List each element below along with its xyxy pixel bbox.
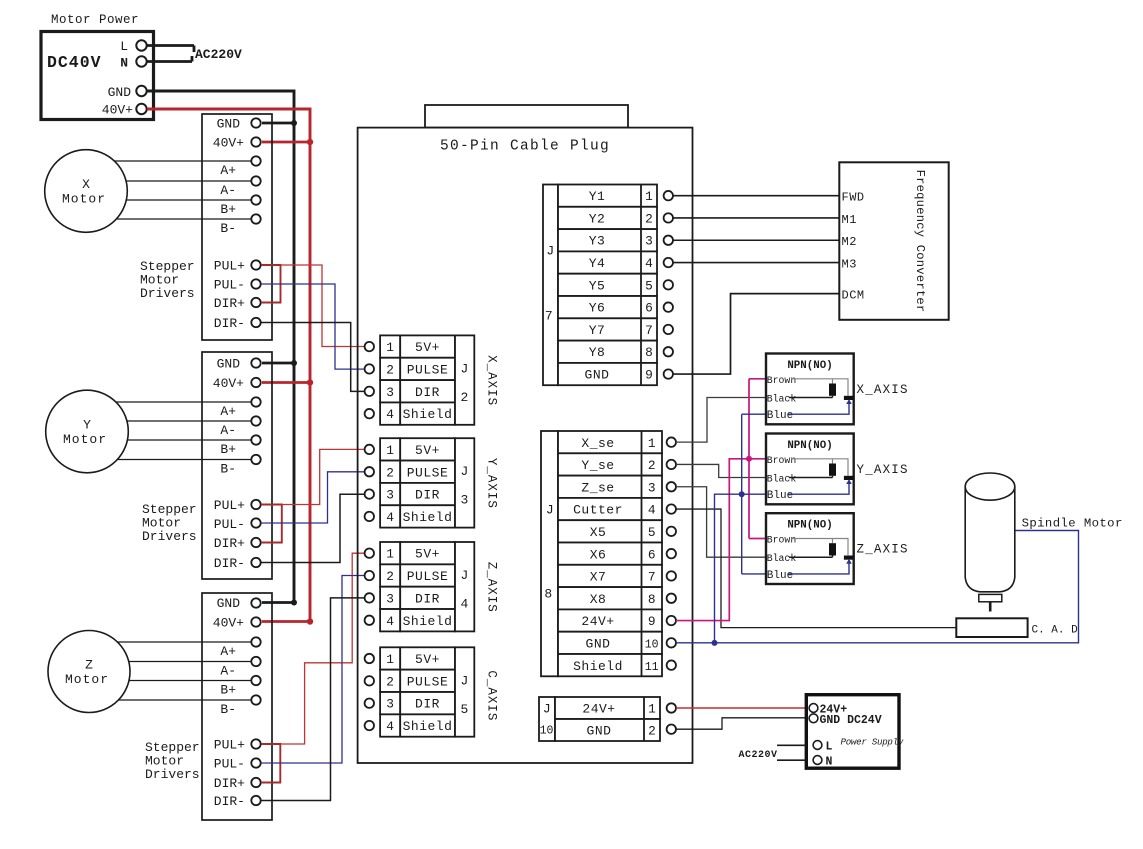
- svg-text:Shield: Shield: [403, 407, 453, 422]
- svg-text:C. A. D: C. A. D: [1032, 625, 1079, 637]
- svg-text:Drivers: Drivers: [142, 529, 197, 544]
- svg-text:Y7: Y7: [589, 323, 606, 338]
- svg-text:DC40V: DC40V: [47, 53, 102, 72]
- pin Z GND: [251, 598, 260, 607]
- pin C_AXIS 3: [365, 699, 374, 708]
- pin X_AXIS 3: [365, 387, 374, 396]
- svg-text:Shield: Shield: [403, 510, 453, 525]
- svg-text:L: L: [826, 741, 833, 754]
- svg-text:6: 6: [648, 547, 656, 562]
- pin Z_AXIS 1: [365, 549, 374, 558]
- wire Y motor B-: [117, 459, 251, 461]
- svg-text:L: L: [120, 39, 128, 54]
- svg-text:DIR: DIR: [415, 488, 440, 503]
- svg-text:PUL+: PUL+: [214, 738, 245, 753]
- wire Z PULSE to Z_AXIS pin2: [261, 576, 365, 764]
- pin J8-11: [667, 660, 676, 669]
- pin X A+: [251, 156, 260, 165]
- svg-text:X5: X5: [590, 525, 607, 540]
- wire X motor A+: [114, 160, 251, 162]
- svg-text:Z: Z: [85, 658, 93, 673]
- svg-text:GND: GND: [217, 596, 241, 611]
- svg-text:4: 4: [386, 407, 394, 422]
- svg-text:10: 10: [645, 639, 659, 652]
- pin X 40V+: [251, 137, 260, 146]
- stepper motor driver Z: [202, 593, 272, 820]
- pin X B+: [251, 195, 260, 204]
- svg-text:PULSE: PULSE: [407, 569, 449, 584]
- wire Y motor A+: [116, 401, 252, 403]
- svg-text:B+: B+: [220, 442, 236, 457]
- svg-text:4: 4: [648, 503, 656, 518]
- wire Y PUL+/DIR+ link: [261, 505, 282, 543]
- svg-text:A-: A-: [220, 183, 236, 198]
- svg-text:Y_AXIS: Y_AXIS: [857, 463, 909, 477]
- svg-text:Y_se: Y_se: [581, 458, 614, 473]
- svg-text:J: J: [546, 503, 554, 518]
- svg-text:5: 5: [648, 525, 656, 540]
- pin Z A+: [251, 637, 260, 646]
- svg-text:Y5: Y5: [589, 278, 606, 293]
- svg-text:3: 3: [386, 591, 394, 606]
- svg-text:PUL-: PUL-: [214, 517, 245, 532]
- wire Z motor A+: [118, 641, 252, 643]
- svg-text:1: 1: [645, 189, 653, 204]
- svg-text:5V+: 5V+: [415, 340, 440, 355]
- svg-text:M2: M2: [842, 235, 857, 249]
- pin Y_AXIS 4: [365, 512, 374, 521]
- wire Cutter to C.A.D: [676, 509, 956, 628]
- svg-text:NPN(NO): NPN(NO): [787, 360, 832, 372]
- connector C_AXIS table: [380, 647, 474, 736]
- terminal PSU N: [813, 756, 822, 765]
- svg-text:Y_AXIS: Y_AXIS: [485, 458, 499, 509]
- svg-text:6: 6: [645, 301, 653, 316]
- svg-text:1: 1: [648, 436, 656, 451]
- pin J7-3: [664, 236, 673, 245]
- svg-text:GND: GND: [217, 357, 241, 372]
- svg-text:J: J: [461, 568, 469, 583]
- pin J8-6: [667, 549, 676, 558]
- svg-text:2: 2: [386, 465, 394, 480]
- svg-text:DIR-: DIR-: [214, 794, 245, 809]
- svg-text:4: 4: [386, 510, 394, 525]
- pin J7-1: [664, 191, 673, 200]
- svg-text:Y1: Y1: [589, 189, 606, 204]
- wire Y4 to M3: [673, 262, 839, 264]
- junction blue net Y: [739, 491, 745, 497]
- svg-text:GND: GND: [108, 85, 132, 100]
- wire GND stub X driver: [262, 122, 294, 125]
- wire X PUL+/DIR+ link: [261, 265, 281, 303]
- svg-text:4: 4: [645, 256, 653, 271]
- svg-text:9: 9: [648, 614, 656, 629]
- pin X PUL-: [251, 279, 260, 288]
- connector Y_AXIS table: [380, 438, 474, 527]
- pin Y_AXIS 3: [365, 489, 374, 498]
- svg-text:Spindle Motor: Spindle Motor: [1022, 517, 1123, 531]
- wire X_se to X sensor black: [676, 398, 767, 443]
- svg-text:PULSE: PULSE: [407, 465, 449, 480]
- wire Z_se to Z sensor black: [676, 487, 767, 557]
- svg-text:40V+: 40V+: [213, 616, 244, 631]
- pin J8-9: [667, 616, 676, 625]
- svg-text:FWD: FWD: [842, 191, 865, 205]
- svg-text:NPN(NO): NPN(NO): [787, 440, 832, 452]
- wire GND stub Y driver: [262, 362, 294, 365]
- wire Y 5V+ to Y_AXIS pin1: [282, 449, 365, 504]
- pin X DIR+: [251, 298, 260, 307]
- label Stepper Motor Drivers X: [140, 259, 195, 301]
- pin Z PUL-: [251, 758, 260, 767]
- svg-text:J: J: [543, 702, 551, 717]
- pin Z PUL+: [251, 739, 260, 748]
- svg-text:Brown: Brown: [767, 375, 797, 386]
- svg-text:A-: A-: [220, 664, 236, 679]
- svg-text:11: 11: [645, 661, 659, 674]
- wire GND bus: [147, 91, 294, 603]
- wire X motor B+: [126, 199, 251, 201]
- terminal GND: [136, 86, 146, 96]
- pin Z B+: [251, 676, 260, 685]
- wire Y motor A-: [127, 420, 251, 422]
- svg-text:Motor: Motor: [62, 192, 106, 207]
- svg-text:4: 4: [461, 597, 469, 612]
- pin X A-: [251, 176, 260, 185]
- pin X_AXIS 4: [365, 409, 374, 418]
- pin C_AXIS 2: [365, 676, 374, 685]
- svg-text:24V+: 24V+: [582, 702, 615, 717]
- svg-text:A+: A+: [220, 163, 236, 178]
- pin J8-1: [667, 437, 676, 446]
- svg-text:Motor: Motor: [63, 432, 107, 447]
- svg-text:X_se: X_se: [581, 436, 614, 451]
- svg-text:GND: GND: [217, 117, 241, 132]
- svg-text:AC220V: AC220V: [195, 47, 242, 62]
- pin J8-3: [667, 482, 676, 491]
- svg-text:10: 10: [540, 725, 554, 738]
- svg-text:N: N: [120, 56, 128, 71]
- motor X: [45, 150, 128, 233]
- proximity sensor X NPN(NO): [766, 354, 854, 425]
- svg-text:40V+: 40V+: [102, 103, 133, 118]
- pin J8-8: [667, 594, 676, 603]
- svg-text:9: 9: [645, 368, 653, 383]
- wire X motor B-: [116, 218, 251, 220]
- pin Y A-: [251, 416, 260, 425]
- svg-text:Motor: Motor: [65, 672, 109, 687]
- svg-text:PUL-: PUL-: [214, 757, 245, 772]
- svg-text:Blue: Blue: [767, 570, 793, 582]
- svg-text:A-: A-: [220, 423, 236, 438]
- pin Y B-: [251, 455, 260, 464]
- svg-text:Drivers: Drivers: [145, 767, 200, 782]
- pin Z DIR+: [251, 778, 260, 787]
- junction 40V+ Y: [307, 379, 313, 385]
- pin Z B-: [251, 695, 260, 704]
- svg-text:3: 3: [386, 385, 394, 400]
- wire PSU AC220V N: [777, 759, 806, 761]
- svg-text:GND: GND: [587, 724, 612, 739]
- connector X_AXIS table: [380, 335, 474, 424]
- svg-text:1: 1: [386, 443, 394, 458]
- svg-text:1: 1: [386, 547, 394, 562]
- junction GND X: [291, 120, 297, 126]
- wire GND stub Z driver: [262, 601, 294, 604]
- svg-text:B-: B-: [220, 221, 236, 236]
- wire Y3 to M2: [673, 239, 839, 241]
- svg-text:8: 8: [645, 345, 653, 360]
- wire Y motor B+: [127, 439, 251, 441]
- pin C_AXIS 1: [365, 654, 374, 663]
- svg-text:40V+: 40V+: [213, 376, 244, 391]
- wire X DIR to X_AXIS pin3: [261, 323, 365, 392]
- junction brown net: [746, 456, 752, 462]
- svg-text:GND DC24V: GND DC24V: [820, 714, 882, 727]
- junction 40V+ Z: [307, 618, 313, 624]
- wire 40V+ stub Y driver: [262, 381, 310, 384]
- svg-text:3: 3: [645, 234, 653, 249]
- svg-text:PULSE: PULSE: [407, 363, 449, 378]
- svg-text:5V+: 5V+: [415, 652, 440, 667]
- terminal PSU GND: [809, 714, 818, 723]
- svg-text:B-: B-: [220, 702, 236, 717]
- wire Y DIR to Y_AXIS pin3: [261, 494, 365, 562]
- svg-text:DIR: DIR: [415, 591, 440, 606]
- svg-text:3: 3: [461, 493, 469, 508]
- svg-text:40V+: 40V+: [213, 136, 244, 151]
- wire 40V+ stub X driver: [262, 141, 310, 144]
- svg-text:Z_se: Z_se: [581, 480, 614, 495]
- pin Y PUL-: [251, 518, 260, 527]
- terminal PSU L: [813, 741, 822, 750]
- svg-text:5V+: 5V+: [415, 547, 440, 562]
- pin X DIR-: [251, 318, 260, 327]
- svg-text:N: N: [826, 756, 833, 769]
- pin X PUL+: [251, 260, 260, 269]
- svg-text:Y4: Y4: [589, 256, 606, 271]
- pin J7-8: [664, 347, 673, 356]
- svg-text:Brown: Brown: [767, 535, 797, 546]
- tool sensor C.A.D box: [956, 618, 1027, 637]
- pin Y DIR-: [251, 558, 260, 567]
- svg-text:Black: Black: [767, 394, 797, 405]
- terminal 40V+: [136, 104, 146, 114]
- wire Z motor B-: [119, 699, 252, 701]
- pin J7-9: [664, 369, 673, 378]
- stepper motor driver X: [202, 114, 272, 340]
- pin Z A-: [251, 657, 260, 666]
- svg-text:J: J: [461, 361, 469, 376]
- pin Z_AXIS 2: [365, 571, 374, 580]
- svg-text:Drivers: Drivers: [140, 286, 195, 301]
- connector Z_AXIS table: [380, 542, 474, 631]
- pin J7-5: [664, 280, 673, 289]
- frequency converter box: [839, 162, 948, 319]
- motor Z: [48, 631, 130, 713]
- svg-text:Shield: Shield: [403, 719, 453, 734]
- terminal PSU 24V+: [809, 704, 818, 713]
- connector J10 table (24V+,GND): [539, 697, 660, 741]
- svg-text:B+: B+: [220, 683, 236, 698]
- pin J8-10: [667, 638, 676, 647]
- wire Y1 to FWD: [673, 195, 839, 197]
- svg-text:DIR+: DIR+: [214, 776, 245, 791]
- wire GND9 to DCM: [673, 294, 839, 374]
- svg-text:3: 3: [386, 697, 394, 712]
- 50-pin cable plug box: [358, 128, 693, 763]
- svg-text:Black: Black: [767, 474, 797, 485]
- svg-text:Blue: Blue: [767, 490, 793, 502]
- svg-text:4: 4: [386, 614, 394, 629]
- pin Y PUL+: [251, 500, 260, 509]
- proximity sensor Z NPN(NO): [766, 513, 854, 584]
- wire 24V+ sensor brown net: [676, 379, 767, 621]
- junction GND Y: [291, 360, 297, 366]
- wire Y PULSE to Y_AXIS pin2: [261, 472, 365, 523]
- svg-text:Motor Power: Motor Power: [51, 13, 139, 27]
- wire X 5V+ to X_AXIS pin1: [281, 265, 365, 347]
- wire 40V+ stub Z driver: [262, 620, 310, 623]
- wire 40V+ bus: [147, 109, 310, 622]
- svg-text:Y6: Y6: [589, 301, 606, 316]
- pin J10-1: [667, 703, 676, 712]
- svg-text:B-: B-: [220, 462, 236, 477]
- wire L to AC220V: [147, 46, 194, 53]
- svg-text:DIR-: DIR-: [214, 316, 245, 331]
- wire Z 5V+ to Z_AXIS pin1: [280, 553, 365, 744]
- pin X B-: [251, 214, 260, 223]
- pin J10-2: [667, 725, 676, 734]
- svg-text:3: 3: [648, 480, 656, 495]
- pin J8-4: [667, 504, 676, 513]
- svg-text:DIR+: DIR+: [214, 296, 245, 311]
- junction blue net pin10: [712, 640, 718, 646]
- svg-text:2: 2: [648, 458, 656, 473]
- wire X motor A-: [126, 180, 251, 182]
- svg-text:Black: Black: [767, 553, 797, 564]
- wire J10 GND to power supply: [676, 718, 809, 729]
- svg-text:Y: Y: [83, 418, 91, 433]
- svg-text:PULSE: PULSE: [407, 674, 449, 689]
- svg-text:5: 5: [461, 702, 469, 717]
- svg-text:J: J: [461, 464, 469, 479]
- power supply DC40V box: [41, 32, 154, 120]
- terminal L: [136, 40, 146, 50]
- pin Z_AXIS 3: [365, 593, 374, 602]
- pin J8-5: [667, 527, 676, 536]
- svg-text:2: 2: [461, 390, 469, 405]
- svg-text:Z_AXIS: Z_AXIS: [485, 562, 499, 613]
- svg-text:5: 5: [645, 278, 653, 293]
- svg-text:Brown: Brown: [767, 455, 797, 466]
- svg-text:3: 3: [386, 488, 394, 503]
- wire PSU AC220V L: [777, 744, 806, 746]
- svg-text:J: J: [461, 673, 469, 688]
- svg-text:7: 7: [648, 570, 656, 585]
- wire Z PUL+/DIR+ link: [261, 744, 280, 783]
- svg-text:B+: B+: [220, 202, 236, 217]
- pin Z DIR-: [251, 796, 260, 805]
- svg-text:2: 2: [648, 724, 656, 739]
- svg-text:A+: A+: [220, 404, 236, 419]
- svg-text:X6: X6: [590, 547, 607, 562]
- stepper motor driver Y: [202, 352, 272, 579]
- motor Y: [46, 390, 129, 473]
- svg-text:DIR: DIR: [415, 385, 440, 400]
- pin Y DIR+: [251, 538, 260, 547]
- svg-text:Y8: Y8: [589, 345, 606, 360]
- 50-pin cable plug tab: [425, 105, 628, 128]
- svg-text:GND: GND: [585, 368, 610, 383]
- wire J10 24V+ to power supply: [676, 707, 809, 709]
- pin J8-7: [667, 571, 676, 580]
- spindle motor cylinder: [965, 473, 1015, 612]
- pin J7-6: [664, 302, 673, 311]
- pin J8-2: [667, 460, 676, 469]
- wire Y_se to Y sensor black: [676, 464, 767, 477]
- svg-text:X_AXIS: X_AXIS: [857, 383, 909, 397]
- pin Z_AXIS 4: [365, 616, 374, 625]
- svg-text:X: X: [82, 177, 90, 192]
- svg-text:2: 2: [645, 211, 653, 226]
- pin X_AXIS 2: [365, 364, 374, 373]
- pin Y B+: [251, 435, 260, 444]
- svg-text:Blue: Blue: [767, 410, 793, 422]
- svg-text:PUL+: PUL+: [214, 498, 245, 513]
- pin Z 40V+: [251, 617, 260, 626]
- pin Y GND: [251, 358, 260, 367]
- svg-text:PUL-: PUL-: [214, 278, 245, 293]
- svg-text:4: 4: [386, 719, 394, 734]
- wire Z motor A-: [129, 661, 252, 663]
- wire Y2 to M1: [673, 217, 839, 219]
- wire N to AC220V: [147, 56, 192, 62]
- svg-text:DCM: DCM: [842, 289, 865, 303]
- pin Y A+: [251, 397, 260, 406]
- svg-text:Z_AXIS: Z_AXIS: [857, 543, 909, 557]
- svg-text:50-Pin Cable Plug: 50-Pin Cable Plug: [440, 139, 610, 155]
- svg-text:2: 2: [386, 363, 394, 378]
- junction 40V+ X: [307, 139, 313, 145]
- pin Y_AXIS 2: [365, 467, 374, 476]
- wire X PULSE to X_AXIS pin2: [261, 284, 365, 369]
- svg-text:DIR: DIR: [415, 697, 440, 712]
- svg-text:Frequency Converter: Frequency Converter: [913, 170, 927, 313]
- svg-text:M1: M1: [842, 213, 857, 227]
- svg-text:Shield: Shield: [403, 614, 453, 629]
- svg-text:7: 7: [645, 323, 653, 338]
- svg-text:X7: X7: [590, 570, 607, 585]
- svg-text:1: 1: [386, 652, 394, 667]
- pin X_AXIS 1: [365, 342, 374, 351]
- connector J8 input table (X_se..Shield): [541, 431, 662, 676]
- svg-text:2: 2: [386, 674, 394, 689]
- junction GND Z: [291, 600, 297, 606]
- pin Y 40V+: [251, 378, 260, 387]
- connector J7 output table (Y1-Y8,GND): [543, 185, 657, 386]
- pin J7-2: [664, 213, 673, 222]
- svg-text:DIR+: DIR+: [214, 536, 245, 551]
- pin J7-4: [664, 258, 673, 267]
- wire Z motor B+: [129, 680, 251, 682]
- svg-text:PUL+: PUL+: [214, 259, 245, 274]
- svg-text:Y2: Y2: [589, 211, 606, 226]
- svg-text:A+: A+: [220, 644, 236, 659]
- svg-text:Power Supply: Power Supply: [841, 737, 904, 748]
- label Stepper Motor Drivers Y: [142, 502, 197, 544]
- proximity sensor Y NPN(NO): [766, 434, 854, 505]
